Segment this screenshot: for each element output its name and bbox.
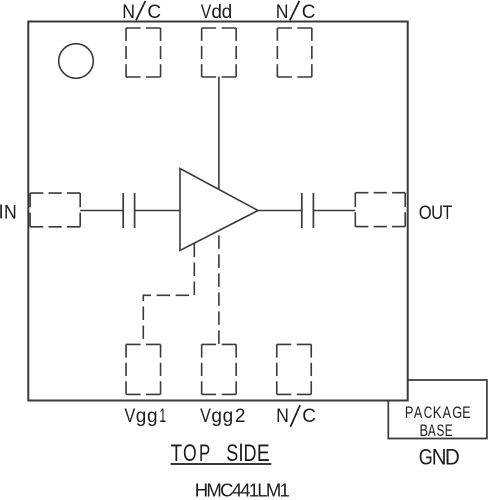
svg-text:C: C — [424, 404, 432, 423]
pad bottom-center Vgg2 — [202, 344, 237, 394]
svg-text:C: C — [302, 406, 316, 427]
svg-text:N: N — [122, 0, 135, 22]
svg-text:N: N — [276, 0, 289, 22]
pad bottom-left Vgg1 — [126, 344, 161, 394]
capacitor C1 (input blocking cap) — [123, 193, 134, 228]
pad IN (left) — [30, 193, 80, 227]
svg-text:E: E — [445, 422, 453, 441]
label Vgg2 (bottom-center pin) — [200, 405, 245, 427]
svg-text:S: S — [226, 441, 238, 467]
svg-text:S: S — [437, 422, 445, 441]
label PACKAGE BASE — [405, 403, 471, 422]
pad OUT (right) — [355, 193, 405, 227]
package outline (top-side view) — [28, 22, 407, 401]
label GND — [419, 445, 460, 470]
capacitor C2 (output blocking cap) — [302, 193, 314, 228]
svg-text:O: O — [183, 440, 197, 466]
wire C2 to OUT pad — [313, 210, 355, 212]
svg-text:d: d — [211, 2, 222, 23]
wire Vdd pad to amplifier — [218, 77, 220, 190]
svg-text:K: K — [433, 404, 442, 423]
pad bottom-right N/C — [277, 344, 312, 394]
svg-text:N: N — [276, 404, 289, 426]
label IN — [1, 201, 17, 223]
pin 1 index circle — [59, 44, 94, 79]
label TOP SIDE — [171, 439, 270, 467]
svg-text:V: V — [125, 405, 136, 427]
svg-text:U: U — [431, 202, 443, 223]
wire IN pad to C1 — [80, 210, 123, 212]
label N/C (top-right pin) — [276, 0, 316, 23]
svg-text:g: g — [147, 406, 158, 427]
label N/C (bottom-right pin) — [276, 404, 316, 427]
svg-text:2: 2 — [235, 406, 246, 427]
dashed gate-bias wire to Vgg1 — [143, 244, 194, 345]
pad top-center Vdd — [202, 28, 237, 77]
svg-text:d: d — [222, 2, 233, 23]
underline for TOP SIDE — [171, 463, 272, 465]
svg-text:G: G — [452, 403, 462, 422]
op-amp U1 (amplifier triangle) — [180, 169, 258, 251]
svg-text:P: P — [405, 403, 413, 422]
svg-text:HMC441LM1: HMC441LM1 — [195, 479, 290, 500]
label N/C (top-left pin) — [122, 0, 161, 23]
svg-text:N: N — [4, 201, 17, 223]
svg-text:1: 1 — [159, 405, 166, 426]
svg-text:T: T — [171, 440, 182, 467]
svg-text:A: A — [443, 403, 451, 422]
svg-text:D: D — [244, 441, 257, 467]
dashed gate-bias wire to Vgg2 — [218, 231, 220, 345]
svg-text:g: g — [211, 406, 222, 427]
package base tab (bottom-right) — [388, 380, 487, 439]
svg-text:V: V — [200, 405, 211, 427]
svg-text:C: C — [302, 2, 316, 23]
wire C1 to amplifier input — [135, 210, 180, 212]
label OUT — [419, 202, 453, 224]
pad top-right N/C — [277, 28, 312, 77]
svg-text:G: G — [419, 446, 433, 470]
label Vdd (top-center pin) — [201, 1, 232, 23]
svg-text:A: A — [428, 422, 436, 441]
svg-text:C: C — [147, 2, 161, 23]
svg-text:O: O — [419, 202, 432, 223]
svg-text:P: P — [199, 440, 210, 467]
label Vgg1 (bottom-left pin) — [125, 405, 167, 427]
pad top-left N/C — [126, 28, 161, 77]
svg-text:g: g — [136, 406, 147, 427]
svg-text:D: D — [445, 445, 460, 470]
svg-text:B: B — [419, 421, 427, 440]
svg-text:g: g — [223, 406, 234, 427]
svg-text:V: V — [201, 1, 212, 23]
svg-text:T: T — [442, 202, 452, 224]
svg-text:A: A — [414, 403, 422, 422]
svg-text:E: E — [462, 404, 470, 422]
wire amplifier output to C2 — [258, 210, 302, 212]
svg-text:E: E — [257, 439, 270, 467]
